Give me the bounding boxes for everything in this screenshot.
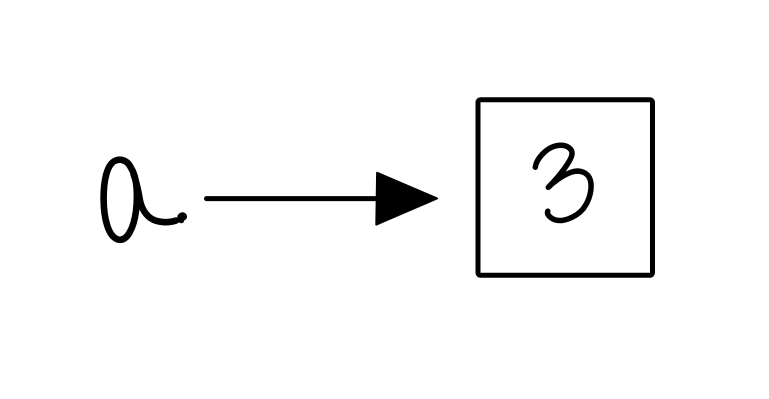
box [478,100,653,275]
handwritten letter a [104,160,185,240]
arrow [207,173,438,225]
handwritten digit 3 [535,145,591,220]
